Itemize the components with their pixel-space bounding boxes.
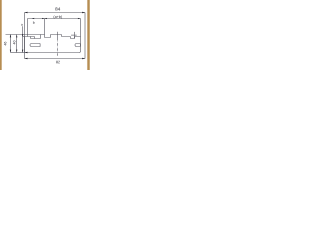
svg-text:46: 46 xyxy=(4,42,8,46)
svg-text:40: 40 xyxy=(13,40,17,44)
svg-text:82: 82 xyxy=(56,60,60,64)
svg-text:b: b xyxy=(33,21,35,25)
svg-text:84: 84 xyxy=(55,7,61,12)
svg-text:(a+b): (a+b) xyxy=(53,15,62,19)
svg-text:a: a xyxy=(21,23,23,27)
